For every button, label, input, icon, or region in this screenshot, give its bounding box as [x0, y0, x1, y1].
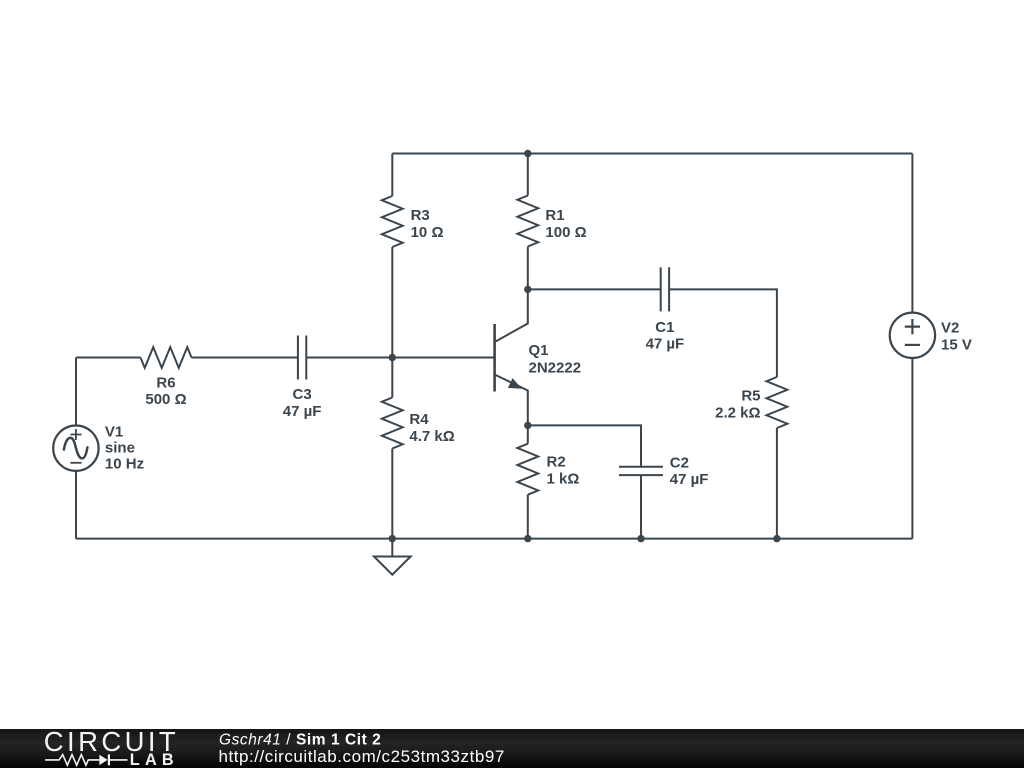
svg-text:1 kΩ: 1 kΩ	[547, 471, 580, 488]
label C1 value	[646, 319, 685, 352]
resistor R5	[767, 377, 788, 428]
svg-text:10 Hz: 10 Hz	[105, 456, 144, 473]
wire R3 bottom lead	[391, 247, 393, 358]
resistor R6	[141, 347, 192, 368]
node base junction	[389, 354, 396, 361]
resistor R4	[382, 398, 403, 449]
resistor R2	[517, 444, 538, 495]
CircuitLab logo resistor-diode glyph	[45, 754, 127, 765]
svg-text:http://circuitlab.com/c253tm33: http://circuitlab.com/c253tm33ztb97	[219, 747, 505, 766]
label R1 value	[545, 207, 586, 241]
svg-text:Gschr41 / Sim 1 Cit 2: Gschr41 / Sim 1 Cit 2	[219, 732, 381, 749]
wire right rail upper	[911, 154, 913, 313]
transistor Q1	[495, 289, 528, 425]
wire C1 to R5	[669, 289, 777, 377]
label R4 value	[409, 411, 454, 445]
node collector	[524, 286, 531, 293]
svg-text:V2: V2	[941, 320, 959, 337]
label R6 value	[145, 374, 186, 408]
wire R4 top lead	[391, 358, 393, 398]
wire R1 bottom lead	[527, 247, 529, 290]
svg-text:R2: R2	[547, 454, 566, 471]
svg-text:V1: V1	[105, 423, 123, 440]
wire R1 top lead	[527, 154, 529, 196]
voltage source V2	[890, 313, 935, 358]
wire R4 bottom lead	[391, 449, 393, 539]
wire R3 top lead	[391, 154, 393, 197]
svg-text:4.7 kΩ: 4.7 kΩ	[409, 428, 454, 445]
svg-text:LAB: LAB	[130, 751, 179, 768]
wire collector to C1	[528, 288, 661, 290]
wire R5 bottom lead	[776, 428, 778, 539]
wire right rail lower	[911, 358, 913, 539]
wire C3 to base node	[306, 357, 494, 359]
svg-text:sine: sine	[105, 440, 135, 457]
CircuitLab logo wordmark CIRCUIT	[44, 726, 179, 757]
svg-text:R6: R6	[156, 374, 175, 391]
svg-text:R1: R1	[545, 207, 564, 224]
node emitter	[524, 422, 531, 429]
footer bar	[0, 729, 1024, 768]
capacitor C3	[298, 336, 306, 380]
node R5 bottom	[773, 535, 780, 542]
capacitor C1	[661, 267, 669, 311]
footer title	[219, 732, 381, 749]
svg-text:C3: C3	[293, 386, 312, 403]
wire input left	[76, 357, 141, 359]
wire V1 top lead	[75, 358, 77, 426]
svg-text:R3: R3	[411, 207, 430, 224]
wire bottom rail	[76, 538, 912, 540]
svg-text:10 Ω: 10 Ω	[411, 224, 444, 241]
wire emitter to C2	[528, 425, 641, 466]
svg-text:C2: C2	[670, 455, 689, 472]
svg-text:R4: R4	[409, 411, 429, 428]
svg-text:2N2222: 2N2222	[529, 360, 582, 377]
svg-text:500 Ω: 500 Ω	[145, 391, 186, 408]
voltage source V1	[53, 426, 98, 471]
label R3 value	[411, 207, 444, 241]
svg-text:R5: R5	[741, 388, 760, 405]
label Q1 value	[529, 342, 582, 377]
svg-text:2.2 kΩ: 2.2 kΩ	[715, 405, 760, 422]
wire R2 top lead	[527, 425, 529, 443]
label R2 value	[547, 454, 580, 488]
label C2 value	[670, 455, 709, 489]
wire R6 to C3	[192, 357, 298, 359]
label V2 value	[941, 320, 972, 354]
svg-text:47 µF: 47 µF	[283, 403, 322, 420]
svg-text:Q1: Q1	[529, 342, 549, 359]
node R2 bottom	[524, 535, 531, 542]
wire top rail	[392, 153, 912, 155]
resistor R3	[382, 196, 403, 247]
node C2 bottom	[637, 535, 644, 542]
label V1 value	[105, 423, 144, 472]
label R5 value	[715, 388, 760, 422]
resistor R1	[517, 196, 538, 247]
svg-text:C1: C1	[655, 319, 674, 336]
svg-text:47 µF: 47 µF	[646, 335, 685, 352]
svg-text:15 V: 15 V	[941, 337, 972, 354]
svg-text:100 Ω: 100 Ω	[545, 224, 586, 241]
label C3 value	[283, 386, 322, 420]
wire R2 bottom lead	[527, 495, 529, 539]
node ground junction	[389, 535, 396, 542]
wire V1 bottom lead	[75, 471, 77, 539]
capacitor C2	[619, 467, 663, 475]
svg-text:47 µF: 47 µF	[670, 471, 709, 488]
node supply/R1 tap	[524, 150, 531, 157]
ground	[374, 539, 411, 575]
CircuitLab logo LAB	[130, 751, 179, 768]
wire C2 bottom lead	[640, 475, 642, 538]
footer url	[219, 747, 505, 766]
